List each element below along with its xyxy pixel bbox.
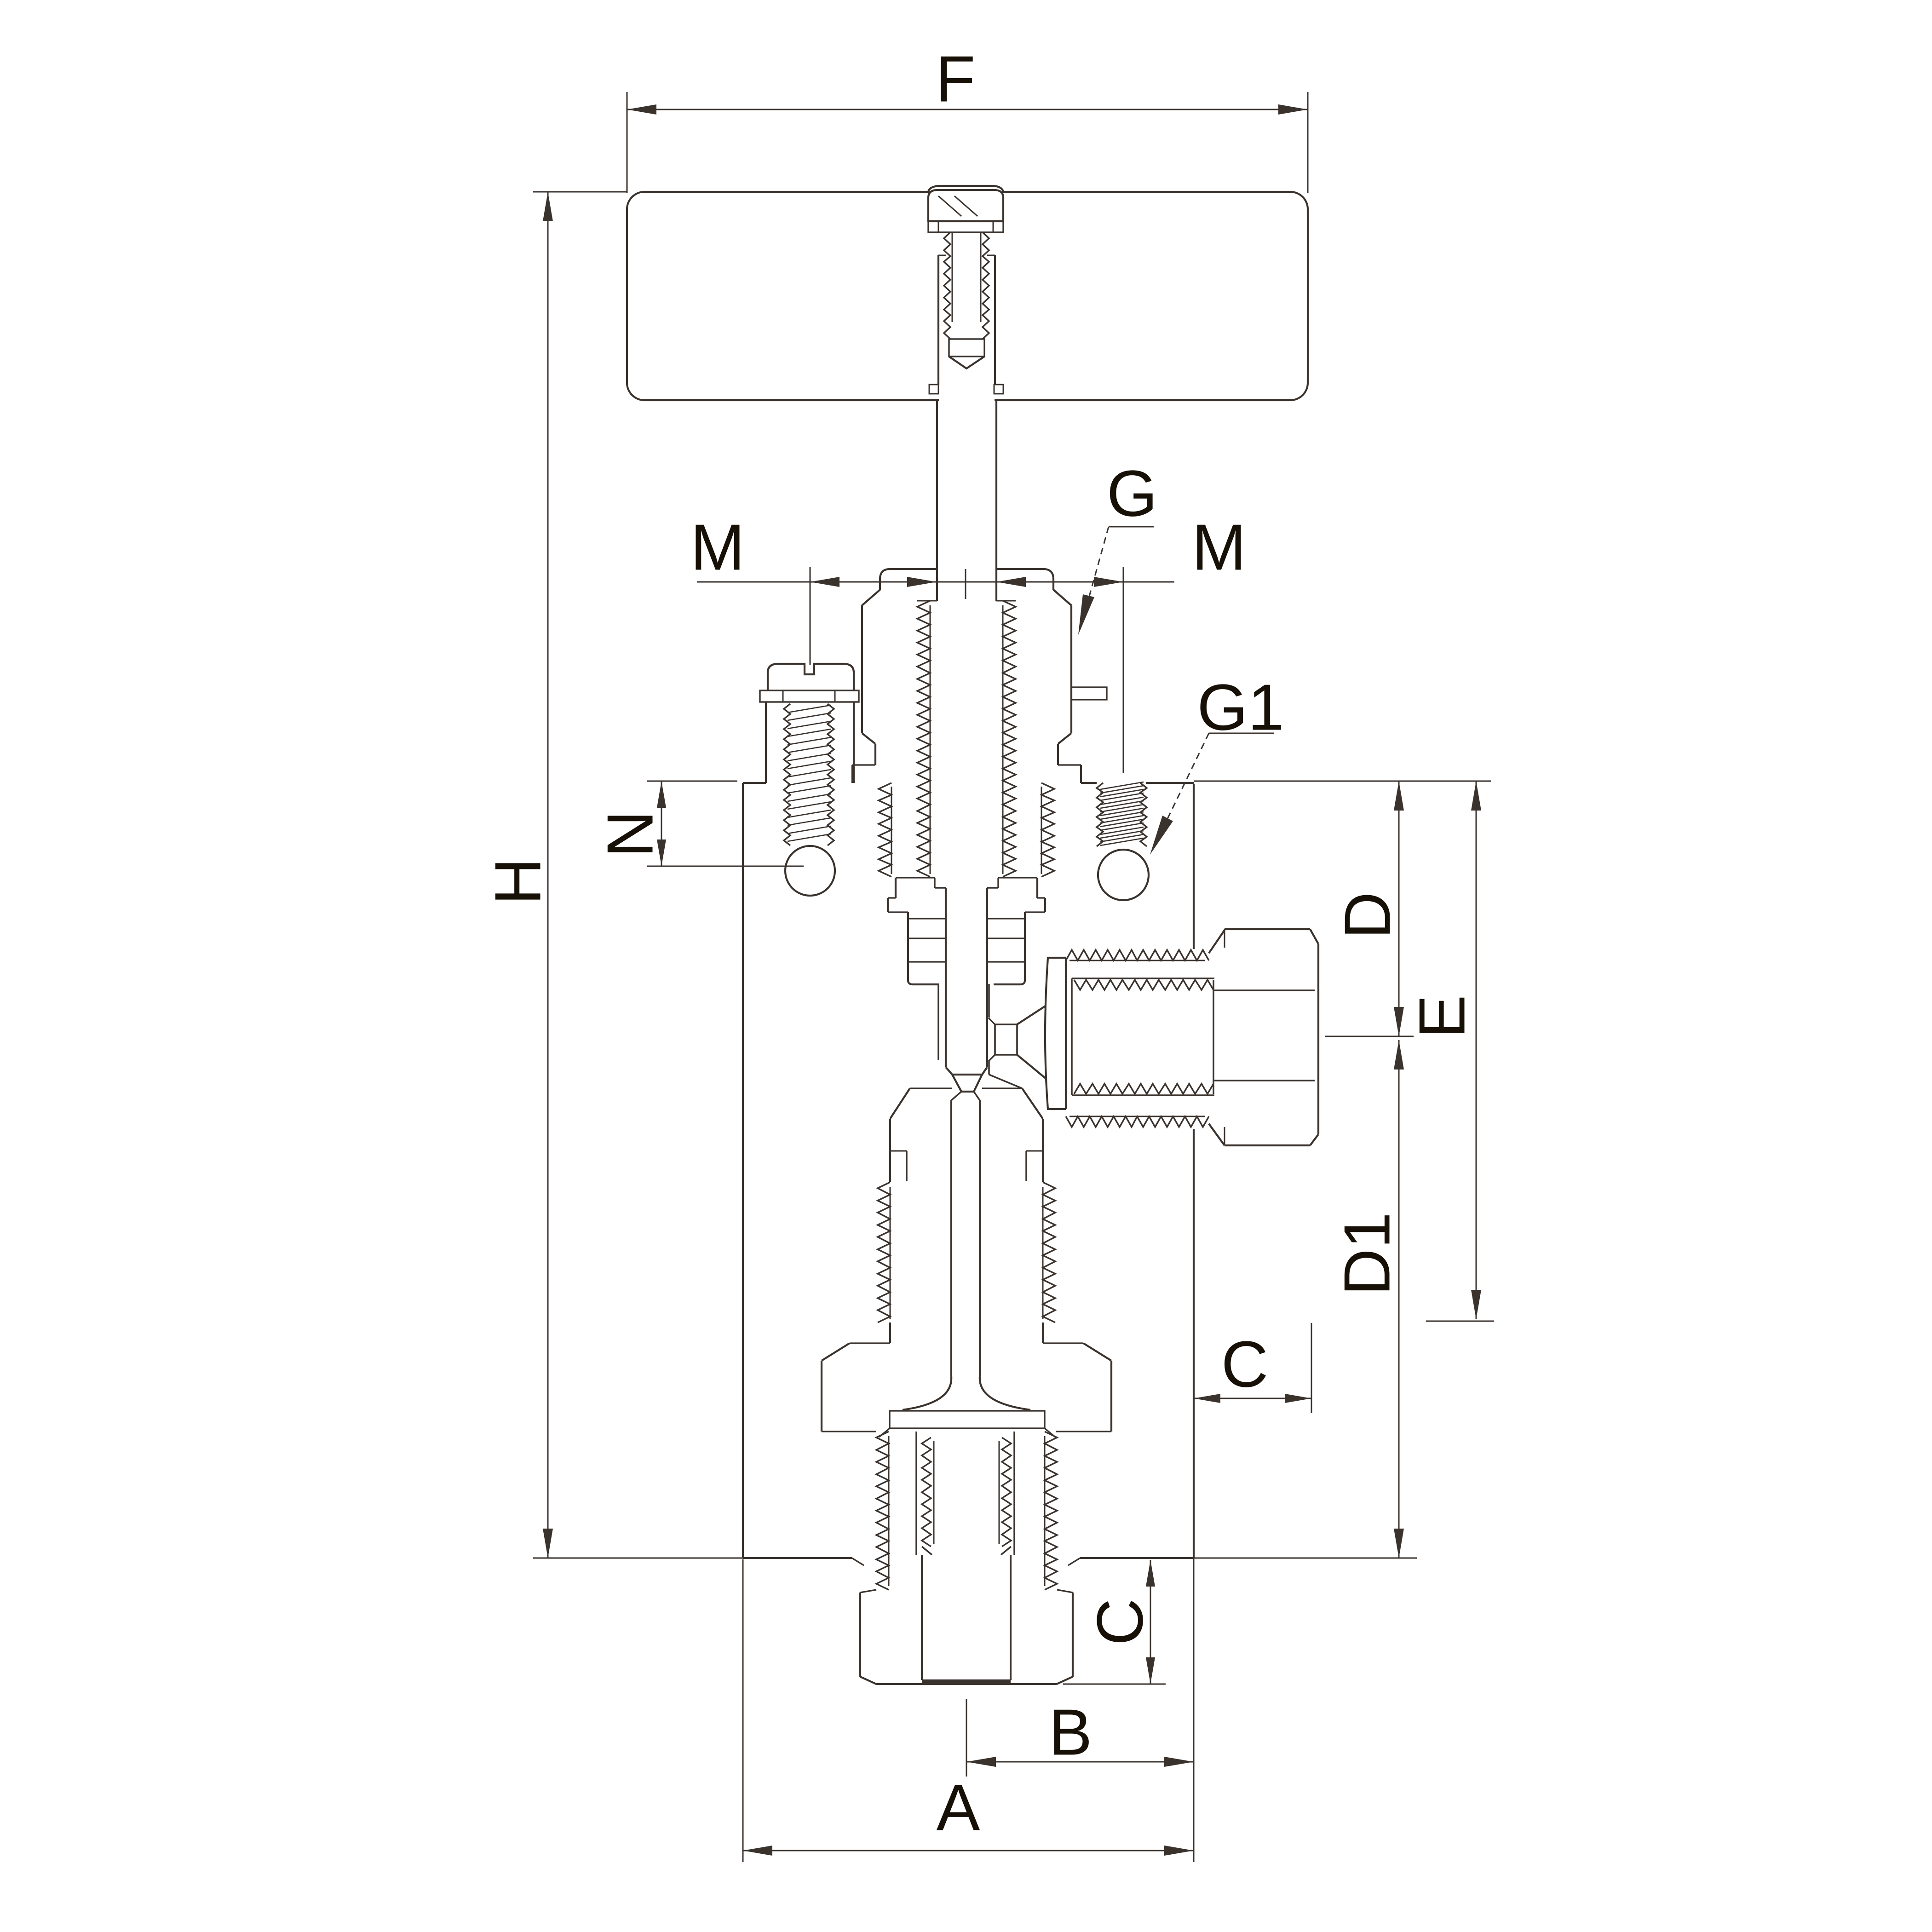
bonnet male thread into body xyxy=(879,783,891,877)
bottom port bore xyxy=(915,1432,917,1555)
svg-text:D1: D1 xyxy=(1331,1212,1404,1296)
side port nut xyxy=(1225,928,1310,930)
bottom port hex xyxy=(860,1590,876,1593)
M dimension line xyxy=(697,581,1174,583)
valve handle bar xyxy=(627,192,1308,400)
H top extension xyxy=(533,191,627,193)
port centre extension xyxy=(1325,1036,1414,1037)
bottom port female thread xyxy=(922,1437,931,1547)
side port male thread rows xyxy=(1066,950,1209,960)
C right dimension xyxy=(1194,1398,1311,1399)
stem disc xyxy=(890,1411,1045,1428)
side port step to nut xyxy=(1209,930,1225,953)
lower nut male thread xyxy=(878,1182,890,1322)
body bottom edge xyxy=(743,1557,852,1559)
handle boss feet xyxy=(929,385,938,394)
mounting hole bottom xyxy=(785,846,835,896)
body cavity shelf xyxy=(850,1342,890,1344)
svg-text:N: N xyxy=(594,811,667,858)
stem plug xyxy=(946,1067,952,1075)
mounting screw washer xyxy=(760,690,859,702)
side port female thread box xyxy=(1071,978,1073,1095)
bottom port male thread xyxy=(876,1432,889,1590)
valve spindle upper tube xyxy=(936,400,938,601)
packing stack xyxy=(907,912,909,980)
M right extension xyxy=(1123,567,1124,773)
svg-text:C: C xyxy=(1221,1328,1269,1401)
svg-text:E: E xyxy=(1406,995,1479,1039)
H bottom extension xyxy=(533,1558,743,1559)
bonnet cap chamfers xyxy=(862,590,880,605)
seat cone xyxy=(1017,1006,1046,1024)
svg-text:B: B xyxy=(1049,1696,1092,1769)
N dimension xyxy=(647,781,737,782)
body right edge xyxy=(1193,784,1195,949)
A dimension xyxy=(742,1559,744,1862)
body left edge xyxy=(742,783,744,1558)
C bottom dimension xyxy=(1150,1560,1151,1684)
G1 hole bottom xyxy=(1098,850,1149,900)
handle set-screw head xyxy=(928,190,1003,221)
svg-text:H: H xyxy=(482,858,555,905)
lower valve stem xyxy=(950,1100,952,1376)
F dimension extension line left xyxy=(627,92,628,193)
svg-text:A: A xyxy=(937,1771,980,1845)
svg-text:M: M xyxy=(1192,511,1246,584)
F dimension line xyxy=(627,109,1308,110)
bonnet cap xyxy=(880,569,937,590)
handle set-screw flange xyxy=(928,221,1003,232)
F dimension extension line right xyxy=(1307,92,1309,193)
E dimension line xyxy=(1476,781,1477,1319)
spindle thread inside bonnet xyxy=(917,601,930,877)
valve stem mid xyxy=(945,888,947,1067)
body outline top edge xyxy=(743,782,766,784)
svg-text:C: C xyxy=(1084,1598,1157,1646)
bonnet position tab xyxy=(1071,687,1107,700)
svg-text:F: F xyxy=(936,43,976,116)
gland flange tiers xyxy=(896,877,935,878)
D1 bottom extension xyxy=(1194,1558,1417,1559)
mounting screw head xyxy=(768,664,854,690)
svg-text:G: G xyxy=(1107,457,1157,530)
gland sleeve walls xyxy=(937,984,939,1060)
mounting screw thread xyxy=(784,704,790,845)
mounting screw boss xyxy=(765,702,767,783)
B dimension xyxy=(966,1699,967,1777)
bottom port lower bore xyxy=(921,1555,923,1680)
H dimension line xyxy=(547,192,549,1558)
handle boss sleeve xyxy=(937,255,939,385)
svg-text:M: M xyxy=(690,511,745,584)
port flange collar xyxy=(1045,958,1066,1109)
D dimension line xyxy=(1398,781,1400,1036)
seat throat xyxy=(995,1023,1017,1025)
stem flare foot xyxy=(903,1376,951,1410)
E bottom extension xyxy=(1426,1321,1494,1322)
set-screw tip xyxy=(949,339,984,356)
bonnet lower step xyxy=(862,733,875,744)
M centre tick xyxy=(965,569,966,599)
side port bore xyxy=(1214,989,1315,991)
svg-text:D: D xyxy=(1331,892,1404,939)
set-screw head dome xyxy=(928,186,1003,192)
A right extension xyxy=(1193,1558,1195,1862)
handle set-screw threaded shank xyxy=(944,232,950,339)
bonnet hex flats xyxy=(861,605,863,733)
body top extension for D and E xyxy=(1194,781,1491,782)
lower retainer nut xyxy=(910,1087,952,1089)
G1 stud thread xyxy=(1097,783,1103,846)
D1 dimension line xyxy=(1398,1040,1400,1558)
M left extension xyxy=(810,567,811,665)
